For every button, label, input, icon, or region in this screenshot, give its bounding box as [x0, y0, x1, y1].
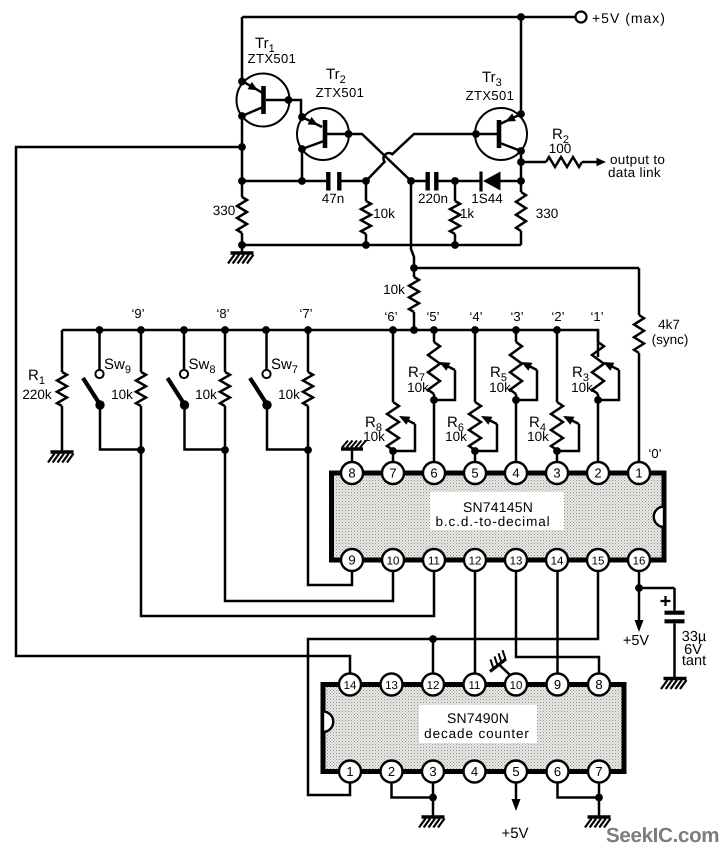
- svg-text:tant: tant: [682, 653, 706, 669]
- svg-text:1k: 1k: [460, 206, 475, 221]
- pin 3 SN74145N: [546, 462, 568, 484]
- ground R1: [51, 450, 74, 453]
- svg-text:11: 11: [469, 680, 481, 692]
- svg-text:2: 2: [594, 466, 601, 481]
- svg-text:10k: 10k: [373, 206, 395, 221]
- resistor 10k (Tr2 collector network): [365, 181, 368, 201]
- pin 2 SN74145N: [587, 462, 609, 484]
- svg-text:7: 7: [595, 764, 602, 779]
- pin 5 SN74145N: [464, 462, 486, 484]
- svg-text:8: 8: [348, 466, 355, 481]
- potentiometer R8 10k: [387, 330, 415, 462]
- wire Tr3 collector to output node: [520, 151, 523, 181]
- pin 7 SN7490N: [588, 761, 610, 783]
- potentiometer R4 10k: [551, 330, 579, 462]
- svg-text:‘0’: ‘0’: [648, 446, 661, 461]
- svg-text:data link: data link: [608, 165, 661, 180]
- switch Sw7: [250, 330, 308, 450]
- pin 14 SN74145N: [546, 549, 568, 571]
- svg-text:2: 2: [388, 764, 395, 779]
- svg-text:ZTX501: ZTX501: [466, 88, 515, 103]
- junction sync tap: [410, 264, 418, 272]
- pin 1 SN74145N: [628, 462, 650, 484]
- junction output node: [517, 158, 525, 166]
- capacitor 220n: [426, 172, 430, 191]
- svg-text:14: 14: [344, 680, 357, 692]
- IC U2 SN7490N body: [323, 685, 624, 772]
- wire Tr2 collector down: [301, 149, 304, 181]
- pin 3 SN7490N: [422, 761, 444, 783]
- svg-text:330: 330: [536, 206, 559, 221]
- resistor 10k (switch column x=225): [224, 330, 227, 372]
- wire SN7490N pin 6 to pin 7: [558, 783, 600, 798]
- svg-text:‘9’: ‘9’: [131, 306, 144, 321]
- svg-text:‘2’: ‘2’: [551, 309, 564, 324]
- resistor 10k (switch column x=308): [307, 330, 310, 372]
- svg-text:12: 12: [469, 556, 482, 568]
- svg-text:10k: 10k: [489, 380, 511, 395]
- svg-text:16: 16: [633, 556, 646, 568]
- wire long left loop to SN7490N pin 14: [16, 147, 350, 673]
- svg-text:‘7’: ‘7’: [299, 306, 312, 321]
- potentiometer R5 10k: [510, 330, 537, 462]
- label SN7490N: [419, 705, 537, 743]
- pin 15 SN74145N: [587, 549, 609, 571]
- svg-text:‘6’: ‘6’: [384, 309, 397, 324]
- pin 11 SN7490N: [464, 674, 486, 696]
- pin 7 SN74145N: [382, 462, 404, 484]
- svg-text:5: 5: [512, 764, 519, 779]
- svg-text:12: 12: [427, 680, 440, 692]
- wire SN74145N pin 16 supply: [638, 571, 641, 588]
- svg-text:3: 3: [553, 466, 560, 481]
- power terminal +5V (max): [576, 12, 587, 23]
- svg-text:7: 7: [389, 466, 396, 481]
- svg-text:3: 3: [429, 764, 436, 779]
- power +5V (SN7490N pin 5): [515, 783, 518, 800]
- pin 1 SN7490N: [339, 761, 361, 783]
- pin 10 SN74145N: [382, 549, 404, 571]
- svg-text:10k: 10k: [363, 429, 385, 444]
- wire column 9 to SN74145N pin 11: [141, 406, 434, 616]
- svg-text:10k: 10k: [445, 429, 467, 444]
- wire to SN7490N pin 12: [432, 639, 435, 673]
- junction to SN7490N pin 12: [429, 635, 437, 643]
- svg-text:47n: 47n: [322, 191, 345, 206]
- junction left feedback tap: [238, 143, 246, 151]
- svg-text:+5V: +5V: [501, 825, 528, 842]
- wire column 8 to SN74145N pin 10: [225, 406, 393, 601]
- svg-text:220k: 220k: [22, 387, 52, 402]
- pin 14 SN7490N: [339, 674, 361, 696]
- potentiometer R3 10k: [592, 330, 619, 462]
- svg-text:SN74145N: SN74145N: [463, 499, 533, 515]
- power +5V (pin 16): [638, 588, 641, 620]
- svg-text:1S44: 1S44: [471, 191, 503, 206]
- wire output bus y330: [62, 330, 598, 357]
- pin 9 SN7490N: [547, 674, 569, 696]
- svg-text:‘1’: ‘1’: [590, 309, 603, 324]
- transistor Tr3 ZTX501: [472, 108, 527, 160]
- svg-text:13: 13: [385, 680, 398, 692]
- svg-text:6: 6: [554, 764, 561, 779]
- diode 1S44: [479, 172, 482, 192]
- resistor R1 220k: [61, 330, 64, 372]
- wire SN7490N pin 2 to pin 3: [392, 783, 434, 798]
- svg-text:‘5’: ‘5’: [426, 309, 439, 324]
- svg-text:10k: 10k: [407, 380, 429, 395]
- pin 4 SN7490N: [464, 761, 486, 783]
- svg-text:‘4’: ‘4’: [469, 309, 482, 324]
- pin 10 SN7490N: [505, 674, 527, 696]
- svg-text:9: 9: [348, 553, 355, 568]
- resistor 330 (Tr1 collector): [241, 181, 244, 197]
- wire Tr1 emitter from rail: [241, 17, 244, 81]
- ground SN7490N pin 7: [598, 783, 601, 817]
- transistor Tr2 ZTX501: [297, 108, 352, 160]
- potentiometer R6 10k: [469, 330, 497, 462]
- svg-text:4: 4: [471, 764, 478, 779]
- wire sync tap (crosses ground rail): [411, 181, 414, 268]
- pin 4 SN74145N: [505, 462, 527, 484]
- IC U1 SN74145N body: [332, 473, 665, 560]
- wire column 7 to SN74145N pin 9: [308, 406, 352, 585]
- label SN74145N: [430, 492, 564, 530]
- resistor R2 100: [521, 161, 546, 164]
- wire cross-coupling Tr3 base (with hop): [366, 134, 476, 181]
- ground above SN74145N pin 8: [351, 450, 354, 461]
- pin 5 SN7490N: [505, 761, 527, 783]
- svg-text:100: 100: [549, 141, 572, 156]
- pin 2 SN7490N: [381, 761, 403, 783]
- svg-text:+5V: +5V: [623, 633, 650, 649]
- svg-text:10k: 10k: [111, 387, 133, 402]
- wire +5V rail: [242, 16, 575, 19]
- switch Sw8: [168, 330, 226, 450]
- ground 33µ: [664, 677, 687, 680]
- resistor 10k (switch column x=141): [140, 330, 143, 372]
- ground SN7490N pin 3: [432, 783, 435, 817]
- resistor 10k (sync feed): [413, 268, 416, 277]
- svg-text:10k: 10k: [527, 429, 549, 444]
- svg-text:6: 6: [430, 466, 437, 481]
- svg-text:4: 4: [512, 466, 519, 481]
- svg-text:decade counter: decade counter: [424, 726, 530, 741]
- svg-text:220n: 220n: [418, 191, 448, 206]
- wire base rail y181: [242, 180, 326, 183]
- resistor 330 (output): [520, 181, 523, 192]
- svg-text:330: 330: [213, 203, 236, 218]
- pin 6 SN74145N: [423, 462, 445, 484]
- pin 8 SN7490N: [588, 674, 610, 696]
- ground (astable section): [241, 245, 244, 252]
- svg-text:‘8’: ‘8’: [216, 306, 229, 321]
- wire SN74145N pin 15 to SN7490N pin 1: [308, 571, 598, 795]
- transistor Tr1 ZTX501: [237, 74, 302, 127]
- svg-text:8: 8: [595, 677, 602, 692]
- svg-text:13: 13: [510, 556, 523, 568]
- svg-text:4k7: 4k7: [658, 317, 680, 332]
- svg-text:b.c.d.-to-decimal: b.c.d.-to-decimal: [435, 514, 550, 529]
- svg-text:10k: 10k: [195, 387, 217, 402]
- wire Tr1 collector down: [241, 116, 244, 181]
- wire to 4k7 sync: [414, 267, 639, 270]
- pin 12 SN74145N: [464, 549, 486, 571]
- svg-text:14: 14: [551, 556, 564, 568]
- pin 6 SN7490N: [547, 761, 569, 783]
- ground SN7490N pin 10: [490, 650, 510, 675]
- svg-text:10: 10: [510, 680, 523, 692]
- potentiometer R7 10k: [428, 330, 455, 462]
- svg-text:10: 10: [387, 556, 400, 568]
- pin 8 SN74145N: [341, 462, 363, 484]
- svg-text:10k: 10k: [278, 387, 300, 402]
- svg-text:1: 1: [346, 764, 353, 779]
- switch Sw9: [83, 330, 141, 450]
- svg-text:10k: 10k: [383, 282, 405, 297]
- wire SN74145N pin 12 to SN7490N pin 11: [474, 571, 477, 673]
- wire SN74145N pin 14 to SN7490N pin 9: [556, 571, 559, 673]
- svg-text:SN7490N: SN7490N: [447, 710, 509, 726]
- pin 16 SN74145N: [628, 549, 650, 571]
- junction +5V rail / Tr3 emitter: [517, 13, 525, 21]
- svg-text:‘3’: ‘3’: [510, 309, 523, 324]
- wire Tr3 emitter to +5V rail: [520, 17, 523, 114]
- svg-text:1: 1: [635, 466, 642, 481]
- svg-text:ZTX501: ZTX501: [316, 85, 365, 100]
- pin 9 SN74145N: [341, 549, 363, 571]
- svg-text:15: 15: [592, 556, 605, 568]
- svg-text:SeekIC.com: SeekIC.com: [606, 824, 719, 847]
- pin 13 SN7490N: [381, 674, 403, 696]
- wire SN74145N pin 13 to SN7490N pin 8: [516, 571, 599, 673]
- wire cross-coupling Tr2 base: [348, 134, 411, 181]
- pin 13 SN74145N: [505, 549, 527, 571]
- svg-text:ZTX501: ZTX501: [248, 51, 297, 66]
- svg-text:(sync): (sync): [652, 332, 689, 347]
- resistor 4k7 (sync): [638, 268, 641, 315]
- resistor 1k: [454, 181, 457, 201]
- capacitor 33µ 6V tant: [639, 588, 685, 677]
- pin 12 SN7490N: [422, 674, 444, 696]
- svg-text:+5V (max): +5V (max): [592, 10, 666, 26]
- svg-text:5: 5: [471, 466, 478, 481]
- pin 11 SN74145N: [423, 549, 445, 571]
- svg-text:10k: 10k: [571, 380, 593, 395]
- wire ground rail y245: [242, 244, 521, 247]
- svg-text:11: 11: [428, 556, 440, 568]
- svg-text:9: 9: [554, 677, 561, 692]
- capacitor 47n: [326, 172, 330, 191]
